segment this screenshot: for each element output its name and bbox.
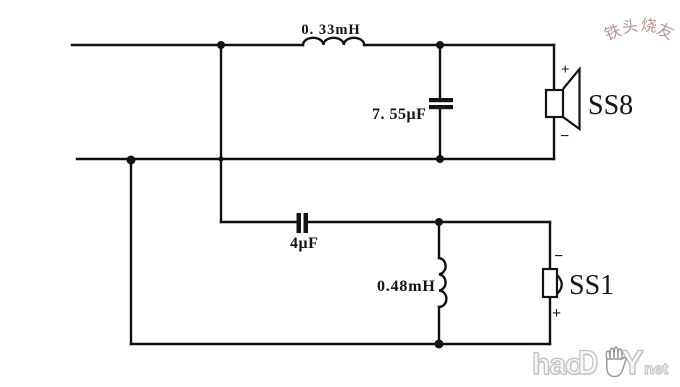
wire top rail left segment (72, 44, 303, 46)
watermark haoDIY.net bottom right (531, 341, 679, 385)
wire capacitor C1 branch upper (439, 45, 441, 98)
speaker SS1 symbol (543, 269, 562, 297)
wire SS1 drop from middle rail (549, 222, 551, 269)
node junction crossing x=221 second rail (218, 156, 223, 161)
node junction second rail x=131 (127, 156, 136, 165)
svg-text:7. 55μF: 7. 55μF (372, 106, 426, 123)
wire second rail (77, 158, 554, 160)
node junction second rail x=440 (436, 155, 444, 163)
wire vertical return at x=131 (130, 160, 132, 344)
svg-text:0.48mH: 0.48mH (377, 278, 436, 295)
capacitor C1 7.55uF plates (429, 98, 453, 109)
svg-text:−: − (560, 128, 569, 145)
hand icon (602, 346, 628, 380)
wire middle rail right of cap (308, 221, 550, 223)
svg-text:SS1: SS1 (569, 270, 614, 301)
wire middle rail left of cap (221, 221, 297, 223)
svg-text:SS8: SS8 (588, 90, 633, 121)
node junction top rail x=221 (217, 41, 225, 49)
svg-text:+: + (552, 305, 561, 322)
svg-text:4μF: 4μF (290, 235, 318, 252)
svg-text:−: − (554, 248, 563, 265)
svg-text:+: + (561, 62, 570, 78)
node junction top rail x=440 (436, 41, 444, 49)
wire SS1 to bottom rail (549, 297, 551, 344)
capacitor C2 4uF plates (297, 213, 309, 233)
wire bottom rail (131, 343, 550, 345)
node junction bottom rail x=439 (435, 340, 444, 349)
speaker SS8 symbol (546, 69, 580, 129)
wire top rail right segment (364, 44, 554, 46)
wire inductor L2 branch lower (438, 307, 440, 344)
wire vertical feed at x=221 (220, 45, 222, 222)
node junction middle rail x=439 (435, 218, 443, 226)
inductor L1 0.33mH (303, 38, 364, 45)
svg-text:0. 33mH: 0. 33mH (301, 22, 360, 38)
wire inductor L2 branch upper (438, 222, 440, 258)
watermark tietou shaoyou top right (600, 9, 680, 43)
wire SS8 drop from top rail (553, 45, 555, 90)
inductor L2 0.48mH (439, 258, 446, 307)
wire SS8 to second rail (553, 117, 555, 159)
wire capacitor C1 branch lower (439, 109, 441, 159)
